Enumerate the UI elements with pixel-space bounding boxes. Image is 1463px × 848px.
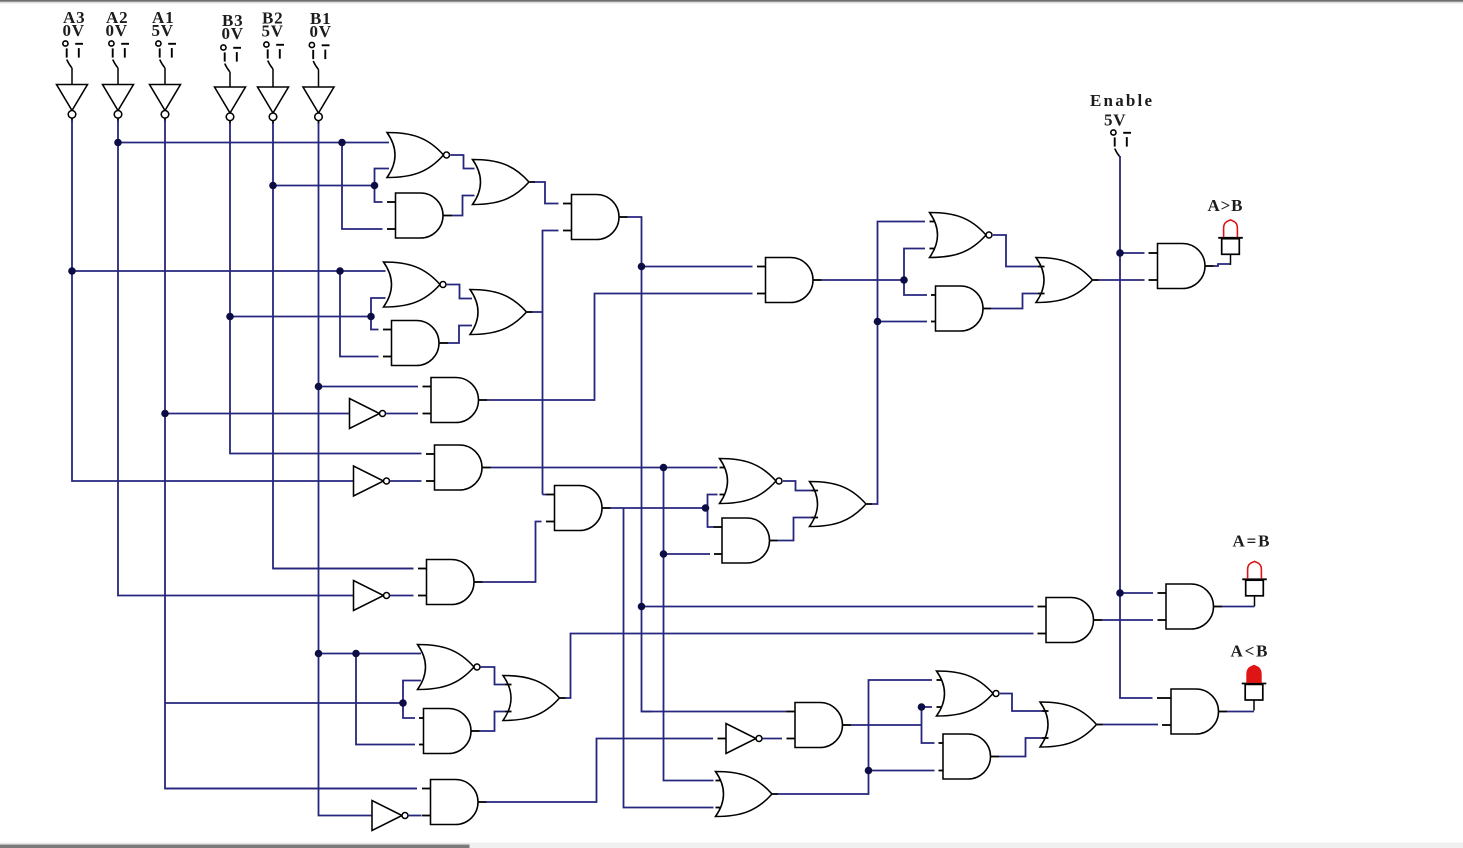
junction B3n/XNOR3 bbox=[367, 313, 375, 321]
wire OR-U17 out riser bbox=[872, 222, 925, 505]
stub U28out bbox=[1219, 711, 1228, 713]
wire G3 net riser bbox=[664, 468, 714, 781]
wire AND-U11 out to NOR-U14 upper bbox=[491, 467, 718, 469]
input switch Enable (5V) bbox=[1090, 91, 1154, 157]
stub OR-U20 upper input bbox=[1038, 266, 1045, 268]
LED X1 (A&gt;B) bbox=[1208, 196, 1244, 265]
AND gate U33 bbox=[431, 780, 479, 825]
wire NOT-U10 out bbox=[390, 480, 422, 482]
stub AND-U15 upper input bbox=[714, 526, 723, 528]
OR gate U3 bbox=[473, 160, 530, 205]
AND gate U11 bbox=[435, 445, 483, 490]
wire U4net to AND-U21 upper bbox=[642, 606, 1034, 608]
stub OR-U31 lower input bbox=[1042, 737, 1049, 739]
inverting buffer B3 bbox=[215, 87, 246, 124]
stub NOR-U18 lower input bbox=[930, 248, 939, 250]
inverting buffer B1 bbox=[303, 87, 334, 124]
stub AND-U16 upper input bbox=[757, 266, 766, 268]
NOR gate U25 bbox=[418, 645, 475, 690]
wire A2n branch to AND1 lower bbox=[342, 143, 383, 230]
AND gate U13 bbox=[555, 486, 603, 531]
wire jog to AND-U15 upper bbox=[708, 508, 714, 527]
stub U22out bbox=[1205, 265, 1214, 267]
inverting buffer A2 bbox=[103, 85, 134, 122]
wire U27 net to AND-U30 lower bbox=[869, 770, 935, 772]
wire B2n to AND14 upper bbox=[273, 568, 414, 570]
wire OR-U20 out to AND-U22 lower bbox=[1099, 279, 1145, 281]
stub U23out bbox=[1214, 606, 1223, 608]
NOT gate U32 bbox=[372, 801, 402, 831]
stub AND-U24 lower input bbox=[787, 738, 796, 740]
stub AND-U13b lower input bbox=[418, 595, 427, 597]
OR gate U17 bbox=[810, 482, 867, 527]
svg-text:0V: 0V bbox=[63, 21, 85, 40]
junction U24out tee bbox=[918, 703, 926, 711]
wire B3n branch to AND3 upper bbox=[371, 317, 379, 330]
AND gate U2 bbox=[396, 193, 444, 238]
AND gate U13b bbox=[427, 560, 475, 605]
AND gate U16 bbox=[766, 258, 814, 303]
stub AND-U19 upper input bbox=[931, 294, 936, 296]
OR gate U7 bbox=[470, 290, 527, 335]
wire OR-U3 out to AND-U4 upper bbox=[535, 182, 559, 204]
wire NOR-U25 out to OR-U27b upper bbox=[481, 667, 505, 685]
junction B3n bbox=[226, 313, 234, 321]
inverting buffer B2 bbox=[258, 87, 289, 124]
junction A2n/NOR-U1 bbox=[338, 139, 346, 147]
NOR gate U1 bbox=[387, 133, 444, 178]
wire NOR-U5 out to OR-U7 upper bbox=[447, 285, 472, 299]
junction U17net/U19 bbox=[874, 318, 882, 326]
stub U11out bbox=[482, 467, 491, 469]
stub NOR-U14 upper input bbox=[720, 467, 729, 469]
stub AND-U4 upper input bbox=[563, 203, 572, 205]
AND gate U30 bbox=[943, 734, 991, 779]
junction U27net/U30 bbox=[865, 767, 873, 775]
stub AND14 upper input bbox=[418, 568, 427, 570]
NOT gate U10 bbox=[354, 466, 384, 496]
wire AND-U26 out to OR-U27b lower bbox=[480, 712, 506, 732]
stub U16out bbox=[813, 279, 822, 281]
junction U4net/U21 bbox=[638, 603, 646, 611]
wire AND-U24 out bbox=[851, 724, 922, 726]
NOR gate U29 bbox=[937, 671, 994, 716]
wire B2n to XNOR2 junction bbox=[273, 185, 375, 187]
stub AND-U15 lower input bbox=[714, 553, 722, 555]
stub AND-U13 lower input bbox=[546, 521, 555, 523]
wire A1n to NOT1 input bbox=[165, 413, 350, 415]
svg-text:5V: 5V bbox=[262, 21, 284, 40]
wire XNOR2 to AND-U13 upper bbox=[543, 494, 547, 496]
svg-text:A=B: A=B bbox=[1233, 532, 1272, 551]
stub OR-U3 out bbox=[530, 181, 536, 183]
wire B3n to XNOR3 junction bbox=[230, 316, 371, 318]
junction U13out tee bbox=[702, 504, 710, 512]
wire OR-U31 out to AND-U28 lower bbox=[1103, 724, 1159, 726]
wire B2n branch to NOR1 lower bbox=[375, 169, 390, 186]
AND gate U24 bbox=[795, 703, 842, 748]
wire AND-U19 out to OR-U20 lower bbox=[991, 294, 1038, 309]
AND gate U9 bbox=[431, 378, 479, 423]
stub OR-U27 lower input bbox=[716, 807, 725, 809]
stub AND-U22 upper input bbox=[1149, 252, 1158, 254]
NOR gate U18 bbox=[930, 213, 987, 258]
junction B1n branch bbox=[352, 650, 360, 658]
wire jog to AND-U19 upper bbox=[904, 280, 927, 295]
wire U17 net to AND-U19 lower bbox=[878, 321, 928, 323]
input switch A1 (5V) bbox=[152, 8, 177, 68]
wire Enable to AND-U23 upper bbox=[1120, 592, 1153, 594]
stub AND1 upper input bbox=[387, 201, 396, 203]
wire NOT-U32 out bbox=[408, 815, 421, 817]
wire AND-U33 out to NOT-U34 bbox=[487, 739, 714, 803]
wire net A1n column bbox=[165, 120, 417, 789]
wire jog to NOR-U29 lower bbox=[922, 707, 933, 725]
svg-text:0V: 0V bbox=[106, 21, 128, 40]
junction B1n/AND-U9 bbox=[315, 383, 323, 391]
wire branch to NOR6 lower bbox=[403, 681, 421, 704]
AND gate U26 bbox=[424, 709, 472, 754]
svg-text:A>B: A>B bbox=[1208, 196, 1244, 215]
junction A3n bbox=[68, 267, 76, 275]
stub U19out bbox=[983, 308, 992, 310]
wire net B2n column bbox=[273, 123, 414, 569]
stub OR-U7 out bbox=[527, 311, 533, 313]
svg-text:Enable: Enable bbox=[1090, 91, 1154, 110]
wire B2n branch to AND1 upper bbox=[375, 186, 383, 203]
LED X3 (A&lt;B) bbox=[1231, 642, 1270, 711]
stub AND-U30 upper input bbox=[939, 742, 944, 744]
wire net B3n column bbox=[230, 123, 422, 454]
wire XNOR1 drop (x=623.5) bbox=[624, 508, 714, 808]
wire B3n branch to NOR2 lower bbox=[371, 298, 386, 317]
junction G3 tee bbox=[660, 464, 668, 472]
stub U33out bbox=[478, 801, 487, 803]
stub AND-U4 lower input bbox=[563, 230, 572, 232]
stub OR-U31 upper input bbox=[1042, 710, 1049, 712]
stub U21out bbox=[1094, 619, 1103, 621]
stub AND-U13 upper input bbox=[546, 494, 555, 496]
svg-text:0V: 0V bbox=[310, 22, 332, 41]
wire net B1n column bbox=[319, 123, 373, 816]
stub U13bout bbox=[474, 581, 483, 583]
wire XNOR2 net riser bbox=[543, 231, 559, 495]
stub AND-U28 lower input bbox=[1162, 724, 1171, 726]
wire NOT-U34 out bbox=[762, 738, 782, 740]
wire AND-U2 out to OR-U3 lower bbox=[452, 196, 475, 216]
wire Enable net bbox=[1120, 156, 1153, 698]
stub U4out bbox=[619, 216, 628, 218]
wire U22 out to LED bbox=[1214, 264, 1232, 266]
wire jog to NOR-U18 lower bbox=[904, 249, 925, 281]
stub AND-U19 lower input bbox=[931, 321, 936, 323]
wire A2n to NOR1 upper bbox=[118, 142, 389, 144]
wire AND-U21 out to AND-U23 lower bbox=[1102, 619, 1153, 621]
wire NOR-U29 out to OR-U31 upper bbox=[1000, 694, 1042, 712]
wire OR-U27b out to AND-U21 lower bbox=[566, 634, 1034, 699]
stub AND16 upper input bbox=[419, 717, 424, 719]
stub AND16 lower input bbox=[419, 744, 424, 746]
wire jog to AND-U30 upper bbox=[922, 725, 935, 743]
wire U28 out to LED bbox=[1227, 711, 1254, 713]
junction B1n/NOR-U25 bbox=[315, 650, 323, 658]
wire switch-A1 to buffer bbox=[164, 68, 166, 85]
wire switch-A2 to buffer bbox=[117, 68, 119, 85]
stub NOR-U29 upper input bbox=[937, 679, 946, 681]
wire OR-U7 out (XNOR2 net) bbox=[533, 311, 543, 313]
stub U9out bbox=[479, 399, 488, 401]
AND gate U15 bbox=[722, 518, 770, 563]
wire switch-A3 to buffer bbox=[71, 68, 73, 85]
stub AND1 lower input bbox=[387, 228, 396, 230]
stub NOR-U18 upper input bbox=[930, 221, 939, 223]
wire NOR-U1 out to OR-U3 upper bbox=[450, 155, 474, 169]
junction U4net/U16 bbox=[638, 263, 646, 271]
wire AND-U6 out to OR-U7 lower bbox=[448, 326, 472, 344]
AND gate U28 (A&lt;B output) bbox=[1171, 689, 1219, 734]
stub OR-U17 lower input bbox=[812, 517, 819, 519]
stub NOR-U14 lower input bbox=[720, 494, 729, 496]
wire switch-B2 to buffer bbox=[272, 69, 274, 87]
stub OR-U20 out bbox=[1093, 279, 1099, 281]
AND gate U6 bbox=[392, 321, 439, 366]
wire switch-B3 to buffer bbox=[229, 72, 231, 87]
stub OR-U27b upper input bbox=[505, 684, 512, 686]
stub AND-U9 lower input bbox=[423, 413, 432, 415]
stub U13out bbox=[602, 507, 611, 509]
input switch A3 (0V) bbox=[63, 8, 86, 68]
AND gate U23 (A=B output) bbox=[1166, 584, 1214, 629]
wire B1n to NOR6 upper bbox=[319, 653, 422, 655]
wire branch to AND16 upper bbox=[403, 703, 415, 718]
inverting buffer A1 bbox=[150, 85, 181, 122]
wire AND-U30 out to OR-U31 lower bbox=[999, 738, 1042, 757]
wire A3n branch to AND3 lower bbox=[340, 271, 379, 357]
wire U4net to AND-U16 upper bbox=[642, 266, 753, 268]
stub AND2out bbox=[443, 215, 452, 217]
wire G3 to AND-U15 lower bbox=[664, 553, 711, 555]
wire net A2n column bbox=[118, 120, 354, 596]
junction A1n/NOT-U8 bbox=[161, 410, 169, 418]
junction Enable/U23 bbox=[1116, 589, 1124, 597]
wire B1n branch to AND16 lower bbox=[356, 654, 415, 745]
stub AND-U30 lower input bbox=[939, 770, 944, 772]
NOR gate U5 bbox=[384, 262, 441, 307]
stub U30out bbox=[991, 756, 1000, 758]
NOT gate U8 bbox=[350, 399, 380, 429]
wire NOT-U8 out bbox=[386, 413, 418, 415]
wire U23 out to LED bbox=[1222, 606, 1255, 608]
stub OR-U27b lower input bbox=[505, 711, 512, 713]
junction B2n bbox=[269, 182, 277, 190]
junction A3n/NOR-U5 bbox=[336, 267, 344, 275]
wire NOR-U14 out to OR-U17 upper bbox=[783, 481, 812, 491]
wire AND-U4 output net bbox=[628, 217, 653, 712]
stub AND3 lower input bbox=[383, 356, 392, 358]
wire U4net to AND-U24 upper bbox=[642, 711, 787, 713]
wire AND-U16 out bbox=[822, 279, 905, 281]
input switch A2 (0V) bbox=[106, 8, 130, 68]
svg-text:A<B: A<B bbox=[1231, 642, 1270, 661]
OR gate U27b bbox=[503, 676, 560, 721]
wire AND-U13b out to AND-U13 lower bbox=[483, 522, 542, 583]
stub OR-U17 upper input bbox=[812, 490, 819, 492]
AND gate U22 (A&gt;B output) bbox=[1158, 244, 1206, 289]
AND gate U21 (A=B stage) bbox=[1046, 598, 1094, 643]
wire AND-U9 out to AND-U16 lower bbox=[487, 294, 753, 401]
stub AND-U23 upper input bbox=[1158, 592, 1167, 594]
svg-text:5V: 5V bbox=[1104, 111, 1126, 130]
wire NOR-U18 out to OR-U20 upper bbox=[993, 235, 1038, 267]
stub AND5 upper input bbox=[426, 453, 435, 455]
stub U24out bbox=[843, 724, 852, 726]
junction A2n bbox=[114, 139, 122, 147]
stub OR-U27 upper input bbox=[716, 780, 725, 782]
wire Enable to AND-U22 upper bbox=[1120, 252, 1145, 254]
wire A1n to AND15 upper bbox=[165, 788, 417, 790]
wire OR-U27 out riser bbox=[778, 680, 932, 794]
input switch B2 (5V) bbox=[262, 8, 285, 69]
stub U6out bbox=[439, 342, 448, 344]
stub U26out bbox=[471, 730, 480, 732]
stub OR-U17 out bbox=[867, 503, 873, 505]
stub OR-U31 out bbox=[1097, 724, 1103, 726]
input switch B3 (0V) bbox=[221, 11, 244, 72]
input switch B1 (0V) bbox=[309, 9, 332, 70]
wire AND-U13 out bbox=[611, 507, 708, 509]
wire NOT-U12 out bbox=[390, 595, 414, 597]
stub AND-U21 lower input bbox=[1038, 633, 1047, 635]
junction G3/U15 bbox=[660, 550, 668, 558]
stub AND-U11 lower input bbox=[426, 480, 435, 482]
OR gate U20 bbox=[1036, 258, 1093, 303]
stub U15out bbox=[769, 540, 778, 542]
svg-text:5V: 5V bbox=[152, 21, 174, 40]
stub AND-U16 lower input bbox=[757, 293, 766, 295]
wire B1n to AND4 upper bbox=[319, 386, 419, 388]
wire jog to NOR-U14 lower bbox=[708, 495, 718, 509]
NOR gate U14 bbox=[720, 459, 777, 504]
junction Enable/U22 bbox=[1116, 249, 1124, 257]
stub AND-U21 upper input bbox=[1038, 606, 1047, 608]
stub AND3 upper input bbox=[383, 329, 392, 331]
NOT gate U34 bbox=[726, 724, 756, 754]
inverting buffer A3 bbox=[57, 85, 88, 122]
OR gate U27 bbox=[716, 772, 773, 817]
stub OR-U20 lower input bbox=[1038, 293, 1045, 295]
stub OR-U27b out bbox=[560, 697, 566, 699]
stub OR-U27 out bbox=[773, 793, 779, 795]
wire A1n to NOR6/AND16 junction bbox=[165, 702, 403, 704]
LED X2 (A=B) bbox=[1233, 532, 1272, 607]
stub AND-U24 upper input2 bbox=[787, 711, 796, 713]
svg-text:0V: 0V bbox=[222, 24, 244, 43]
stub AND-U33 lower input bbox=[422, 815, 431, 817]
OR gate U31 bbox=[1040, 702, 1097, 747]
stub AND-U28 upper input bbox=[1157, 697, 1171, 699]
stub AND-U22 lower input bbox=[1149, 279, 1158, 281]
wire net A3n column bbox=[72, 120, 354, 481]
NOT gate U12 bbox=[354, 581, 384, 611]
stub NOT-U34 input bbox=[718, 738, 727, 740]
stub AND4 upper input bbox=[423, 386, 432, 388]
junction A1n jog bbox=[399, 699, 407, 707]
wire AND-U15 out to OR-U17 lower bbox=[778, 518, 812, 541]
junction U16out tee bbox=[900, 276, 908, 284]
junction B2n/XNOR1 bbox=[371, 182, 379, 190]
AND gate U4 bbox=[572, 195, 620, 240]
stub AND-U23 lower input bbox=[1158, 619, 1167, 621]
wire switch-B1 to buffer bbox=[318, 70, 320, 88]
stub NOR-U29 lower input bbox=[937, 706, 946, 708]
stub AND15 upper input bbox=[422, 788, 431, 790]
wire A3n to NOR2 upper bbox=[72, 270, 386, 272]
AND gate U19 bbox=[936, 286, 984, 331]
